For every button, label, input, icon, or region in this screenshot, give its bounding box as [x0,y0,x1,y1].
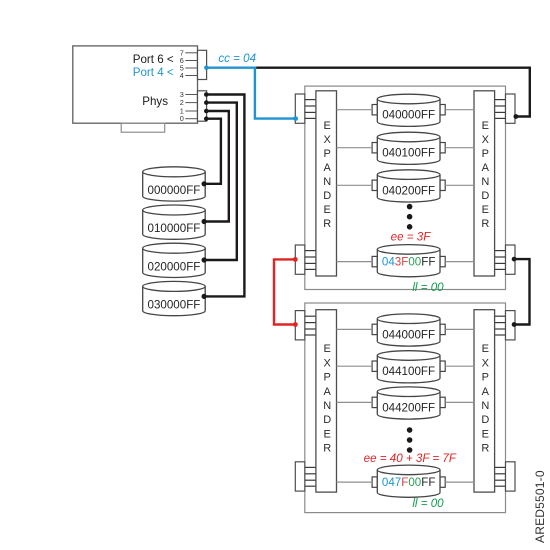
svg-text:A: A [482,162,490,174]
svg-text:000000FF: 000000FF [148,184,201,197]
svg-text:Port 4 <: Port 4 < [133,66,174,79]
svg-text:020000FF: 020000FF [148,260,201,273]
svg-text:4: 4 [180,71,184,80]
svg-text:A: A [324,386,332,398]
svg-text:040200FF: 040200FF [382,184,435,197]
svg-text:E: E [482,343,489,355]
svg-text:A: A [324,162,332,174]
svg-text:Port 6 <: Port 6 < [133,53,174,66]
svg-text:X: X [324,357,332,369]
svg-text:N: N [481,400,489,412]
svg-text:X: X [482,134,490,146]
svg-text:0: 0 [180,114,184,123]
svg-text:X: X [324,134,332,146]
svg-text:P: P [482,148,489,160]
svg-text:cc = 04: cc = 04 [218,52,256,65]
svg-text:010000FF: 010000FF [148,222,201,235]
svg-text:N: N [323,400,331,412]
svg-text:X: X [482,357,490,369]
svg-text:047F00FF: 047F00FF [382,476,436,489]
svg-text:030000FF: 030000FF [148,299,201,312]
svg-text:044000FF: 044000FF [382,328,435,341]
svg-text:R: R [323,218,331,230]
svg-text:ee = 3F: ee = 3F [391,230,432,243]
svg-text:P: P [324,372,331,384]
svg-text:Phys: Phys [142,95,168,108]
svg-text:D: D [481,414,489,426]
svg-text:D: D [323,190,331,202]
svg-text:A: A [482,386,490,398]
svg-text:E: E [482,428,489,440]
svg-text:ll = 00: ll = 00 [412,281,444,294]
svg-text:043F00FF: 043F00FF [382,256,436,269]
svg-text:D: D [323,414,331,426]
svg-text:E: E [324,204,331,216]
svg-text:044100FF: 044100FF [382,365,435,378]
svg-text:R: R [481,218,489,230]
svg-text:ARED5501-0: ARED5501-0 [533,470,547,543]
svg-text:E: E [324,343,331,355]
svg-text:ll = 00: ll = 00 [412,497,444,510]
svg-text:040100FF: 040100FF [382,147,435,160]
svg-text:ee = 40 + 3F = 7F: ee = 40 + 3F = 7F [364,452,457,465]
svg-text:E: E [324,428,331,440]
svg-text:040000FF: 040000FF [382,109,435,122]
svg-text:D: D [481,190,489,202]
svg-text:N: N [481,176,489,188]
svg-text:044200FF: 044200FF [382,401,435,414]
svg-text:N: N [323,176,331,188]
svg-text:R: R [323,443,331,455]
svg-text:E: E [482,204,489,216]
svg-text:E: E [482,120,489,132]
svg-text:P: P [324,148,331,160]
svg-text:P: P [482,372,489,384]
svg-text:E: E [324,120,331,132]
svg-text:R: R [481,443,489,455]
